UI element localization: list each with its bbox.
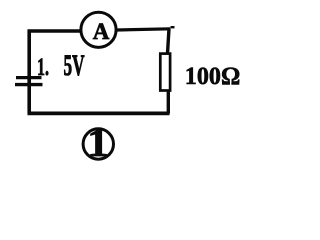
wire right vertical lower (resistor to bottom): [167, 91, 170, 114]
svg-text:1.: 1.: [37, 54, 49, 81]
ammeter U1 circle: [81, 12, 116, 47]
wire top-right horizontal: [117, 29, 171, 30]
figure number circle: [83, 129, 113, 159]
wire corner bump top-right: [171, 26, 175, 28]
wire top-left horizontal: [28, 29, 81, 32]
battery cell bottom plate: [15, 83, 43, 86]
svg-text:100Ω: 100Ω: [185, 63, 241, 90]
resistor R 100 ohm box: [160, 54, 170, 91]
wire bottom horizontal: [28, 112, 170, 116]
svg-text:A: A: [93, 19, 110, 44]
wire right vertical upper (corner to resistor): [168, 29, 170, 54]
wire left vertical: [27, 30, 31, 114]
svg-text:5V: 5V: [64, 49, 85, 82]
battery cell top plate: [16, 76, 42, 79]
svg-text:1: 1: [87, 120, 109, 165]
